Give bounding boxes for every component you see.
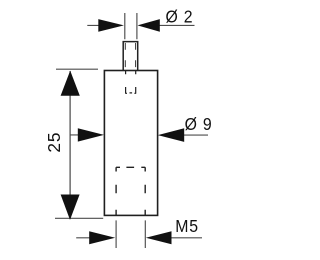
svg-text:Ø 2: Ø 2: [166, 6, 194, 26]
svg-text:Ø 9: Ø 9: [185, 114, 213, 134]
svg-text:M5: M5: [175, 216, 199, 236]
svg-text:25: 25: [44, 132, 64, 153]
